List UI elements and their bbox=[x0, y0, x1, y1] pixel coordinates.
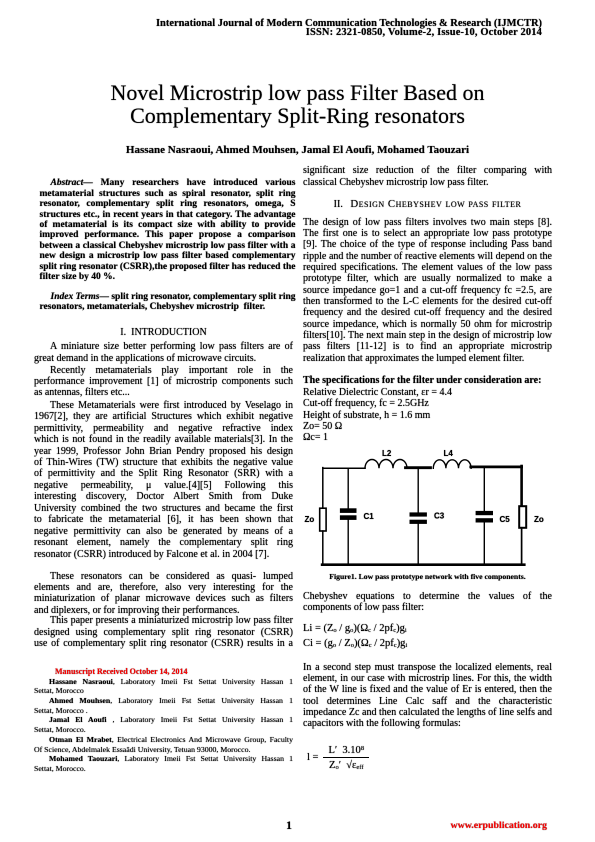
wire right vertical lower bbox=[521, 528, 523, 564]
capacitor C5 lead upper bbox=[483, 468, 485, 511]
resistor Zo right bbox=[519, 506, 526, 528]
node junction bar between L2 and L4 bbox=[406, 466, 431, 469]
capacitor C3 lead lower bbox=[417, 524, 419, 564]
inductor L4 bbox=[433, 460, 471, 469]
wire top right bold horizontal bbox=[471, 465, 522, 468]
wire bottom horizontal bbox=[322, 563, 524, 566]
capacitor C3 lead upper bbox=[417, 469, 419, 512]
wire right vertical upper bbox=[520, 466, 523, 506]
svg-text:Zo: Zo bbox=[305, 515, 315, 524]
capacitor C1 lead lower bbox=[347, 520, 349, 564]
capacitor C1 lead upper bbox=[347, 468, 349, 508]
svg-text:C1: C1 bbox=[364, 512, 375, 521]
svg-text:C5: C5 bbox=[500, 515, 511, 524]
wire top left horizontal bbox=[323, 467, 365, 469]
wire left vertical upper bbox=[322, 468, 324, 509]
resistor Zo left bbox=[320, 508, 326, 531]
capacitor C3 plates bbox=[410, 512, 427, 516]
wire left vertical lower bbox=[322, 531, 324, 565]
svg-text:L4: L4 bbox=[444, 449, 454, 458]
svg-text:L2: L2 bbox=[382, 449, 392, 458]
capacitor C5 lead lower bbox=[483, 523, 485, 565]
svg-text:Zo: Zo bbox=[534, 515, 544, 524]
capacitor C1 plates bbox=[340, 508, 357, 513]
inductor L2 bbox=[365, 459, 407, 468]
svg-text:C3: C3 bbox=[434, 512, 445, 521]
figure 1: low pass prototype circuit bbox=[295, 443, 557, 573]
capacitor C5 plates bbox=[476, 511, 493, 515]
